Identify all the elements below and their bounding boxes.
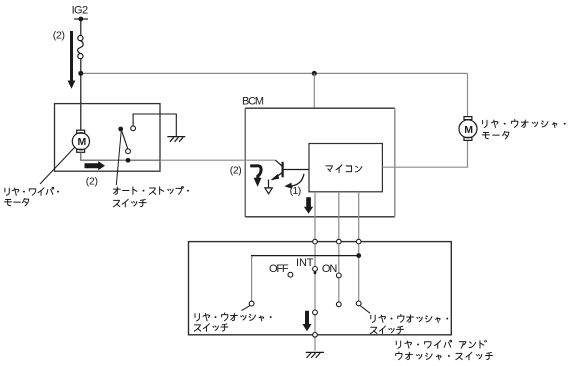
- washer motor M: [459, 117, 477, 141]
- svg-text:OFF: OFF: [269, 263, 289, 275]
- rear wiper and washer switch box: [189, 242, 452, 335]
- terminal pin box bottom: [313, 333, 318, 338]
- svg-text:INT: INT: [296, 257, 314, 269]
- svg-text:M: M: [464, 124, 473, 136]
- node IG2: [74, 17, 88, 22]
- microcomputer box: [309, 144, 382, 192]
- circuit breaker (2): [78, 36, 84, 59]
- svg-text:(1): (1): [290, 185, 302, 197]
- switch contacts: [249, 267, 361, 315]
- ground chassis (switch): [306, 352, 324, 358]
- flow arrow (2) hook: [250, 166, 261, 178]
- lever pivot INT: [314, 271, 317, 274]
- label rear wiper motor line2: [5, 198, 29, 205]
- label washer switch right line2: [371, 326, 404, 334]
- leader wiper motor label: [40, 148, 75, 185]
- label auto-stop switch line2: [113, 199, 146, 207]
- junction feed/motor: [78, 71, 83, 76]
- wire breaker to wiper motor: [80, 59, 82, 130]
- svg-text:M: M: [78, 136, 87, 148]
- label washer switch left line1: [195, 313, 272, 321]
- wire ON line: [338, 244, 340, 302]
- wire washer branch drop: [251, 256, 253, 301]
- wire feed to BCM: [313, 73, 315, 108]
- wire IG2 to breaker: [80, 19, 82, 35]
- leader washer switch right: [360, 306, 370, 314]
- leader auto-stop label: [116, 132, 121, 186]
- svg-text:ON: ON: [322, 263, 337, 275]
- rear wiper motor M: [72, 130, 89, 152]
- auto-stop switch: [118, 126, 135, 163]
- svg-text:BCM: BCM: [242, 96, 264, 108]
- wire motor out: [81, 152, 160, 160]
- wire feed to washer motor: [467, 73, 469, 116]
- wire wiper feed into BCM: [160, 159, 275, 161]
- svg-text:IG2: IG2: [72, 5, 89, 17]
- svg-text:(2): (2): [86, 175, 98, 187]
- flow arrow (1) arc: [291, 174, 305, 186]
- flow arrow (2) down: [68, 31, 76, 89]
- wire washer line: [358, 244, 360, 301]
- leader washer switch left: [242, 305, 251, 310]
- wires micom to switch box: [315, 192, 359, 240]
- label rear washer motor line1: [483, 120, 566, 128]
- svg-text:(2): (2): [53, 29, 65, 41]
- transistor Q1: [271, 160, 310, 180]
- flow arrow (2) right: [85, 161, 106, 170]
- label washer switch left line2: [194, 324, 228, 332]
- BCM box: [245, 108, 395, 217]
- svg-text:(2): (2): [230, 164, 242, 176]
- flow arrow (1) down: [304, 197, 313, 213]
- rear wiper motor box: [55, 104, 161, 172]
- label rear wiper and: [396, 340, 486, 348]
- wire INT line: [314, 244, 316, 351]
- wire park contact to ground: [133, 114, 176, 136]
- wire main feed horizontal: [81, 72, 468, 74]
- wire micom right to washer motor: [382, 141, 467, 168]
- label washer switch: [396, 352, 493, 360]
- terminal pins on box top: [313, 239, 361, 244]
- label auto-stop switch line1: [113, 186, 189, 194]
- label rear wiper motor line1: [5, 187, 59, 195]
- label washer switch right line1: [371, 314, 448, 322]
- wire washer branch: [252, 256, 359, 258]
- label microcomputer: [326, 165, 362, 173]
- label rear washer motor line2: [482, 131, 509, 138]
- flow arrow down to ground: [302, 311, 311, 332]
- emitter to open-arrow ground: [268, 180, 270, 188]
- junction feed/BCM: [312, 71, 317, 76]
- ground chassis (wiper): [167, 137, 185, 142]
- junction washer branch: [356, 253, 361, 258]
